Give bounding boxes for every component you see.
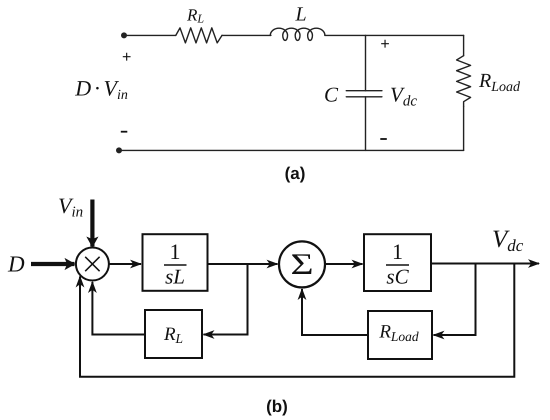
svg-text:L: L	[294, 4, 306, 26]
inductor L	[270, 28, 325, 40]
node + terminal (top-left dot)	[121, 32, 127, 38]
node - terminal (bottom-left dot)	[116, 147, 122, 153]
svg-text:RLoad: RLoad	[478, 70, 521, 95]
svg-text:Vin: Vin	[58, 193, 83, 221]
svg-text:Vdc: Vdc	[390, 83, 417, 110]
summer (sigma)	[279, 241, 325, 287]
svg-text:(a): (a)	[285, 164, 306, 183]
label - bottom-left	[121, 131, 128, 133]
wire 1/sL to summer	[208, 263, 278, 265]
wire junction drop to RL block	[204, 264, 248, 335]
wire junction drop to RLoad block	[434, 264, 476, 336]
svg-text:sL: sL	[165, 265, 185, 289]
svg-text:D·Vin: D·Vin	[74, 76, 128, 104]
resistor RL	[176, 28, 222, 43]
wire summer to 1/sC	[325, 263, 363, 265]
svg-text:+: +	[122, 49, 131, 66]
label - capacitor	[380, 138, 387, 140]
svg-text:C: C	[324, 83, 339, 107]
svg-text:sC: sC	[386, 265, 409, 289]
block RLoad	[368, 311, 432, 359]
wire 1/sC to output Vdc	[431, 263, 539, 265]
block RL	[145, 310, 202, 358]
wire Vin input arrow	[90, 200, 94, 247]
wire bottom	[119, 149, 464, 151]
wire outer feedback loop to multiplier	[80, 264, 514, 377]
wire multiplier to 1/sL	[109, 263, 141, 265]
wire right branch top	[463, 35, 465, 55]
wire capacitor bottom leg	[365, 97, 367, 151]
svg-text:1: 1	[392, 239, 403, 264]
wire RL feedback to multiplier	[92, 282, 145, 335]
svg-text:Σ: Σ	[290, 248, 313, 281]
wire L to node	[325, 34, 464, 36]
svg-text:1: 1	[170, 239, 181, 264]
block 1/sL	[143, 234, 208, 291]
capacitor C plates	[346, 90, 382, 92]
svg-text:+: +	[380, 36, 389, 53]
wire right branch bottom	[463, 106, 465, 150]
svg-text:D: D	[7, 252, 25, 277]
multiplier junction (x)	[76, 248, 109, 281]
svg-text:Vdc: Vdc	[492, 226, 524, 255]
wire top-left	[124, 34, 176, 36]
wire RL to L	[222, 34, 271, 36]
wire RLoad feedback to summer	[302, 289, 368, 335]
svg-text:(b): (b)	[266, 397, 288, 416]
wire capacitor top leg	[365, 35, 367, 90]
wire D input arrow	[31, 262, 75, 266]
block 1/sC	[364, 234, 431, 291]
resistor RLoad	[457, 56, 471, 107]
svg-text:RL: RL	[186, 5, 204, 25]
